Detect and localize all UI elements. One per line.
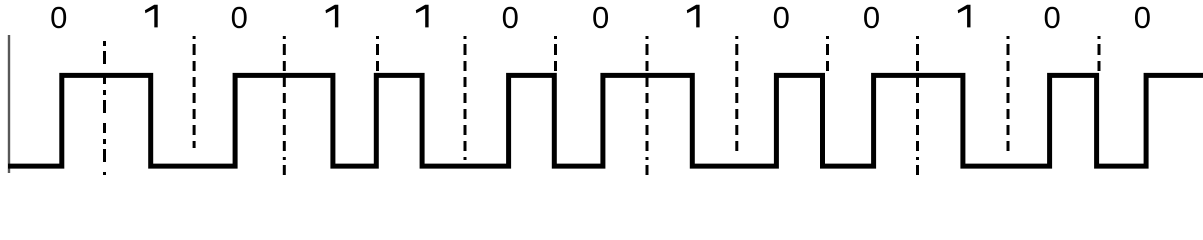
svg-text:0: 0 <box>50 0 67 35</box>
svg-text:0: 0 <box>1043 0 1060 35</box>
bit value label 1 (bit 7) <box>687 5 700 28</box>
bit boundary dashed line 11 (between bits 10 and 11) <box>1007 36 1010 155</box>
bit boundary dashed line 4 (between bits 3 and 4) <box>376 36 379 73</box>
svg-text:0: 0 <box>502 0 519 35</box>
bit boundary dashed line 3 (between bits 2 and 3) <box>283 36 286 175</box>
svg-text:0: 0 <box>773 0 790 35</box>
bit boundary dashed line 6 (between bits 5 and 6) <box>554 36 557 73</box>
bit boundary dashed line 1 (between bits 0 and 1) <box>103 41 106 175</box>
bit value label 1 (bit 3) <box>326 5 339 28</box>
bit boundary dashed line 9 (between bits 8 and 9) <box>826 36 829 73</box>
bit boundary dashed line 7 (between bits 6 and 7) <box>646 36 649 175</box>
bit boundary dashed line 12 (between bits 11 and 12) <box>1098 36 1101 73</box>
svg-text:0: 0 <box>863 0 880 35</box>
bit boundary dashed line 5 (between bits 4 and 5) <box>464 36 467 163</box>
bit boundary dashed line 2 (between bits 1 and 2) <box>193 36 196 148</box>
svg-text:0: 0 <box>231 0 248 35</box>
svg-text:0: 0 <box>592 0 609 35</box>
bit value label 1 (bit 4) <box>416 5 429 28</box>
bit value label 1 (bit 10) <box>958 5 971 28</box>
vertical axis line <box>8 35 10 173</box>
svg-text:0: 0 <box>1134 0 1151 35</box>
Manchester-encoded signal waveform trace <box>8 75 1203 166</box>
bit value label 1 (bit 1) <box>145 5 158 28</box>
bit boundary dashed line 10 (between bits 9 and 10) <box>916 36 919 175</box>
bit boundary dashed line 8 (between bits 7 and 8) <box>735 36 738 155</box>
